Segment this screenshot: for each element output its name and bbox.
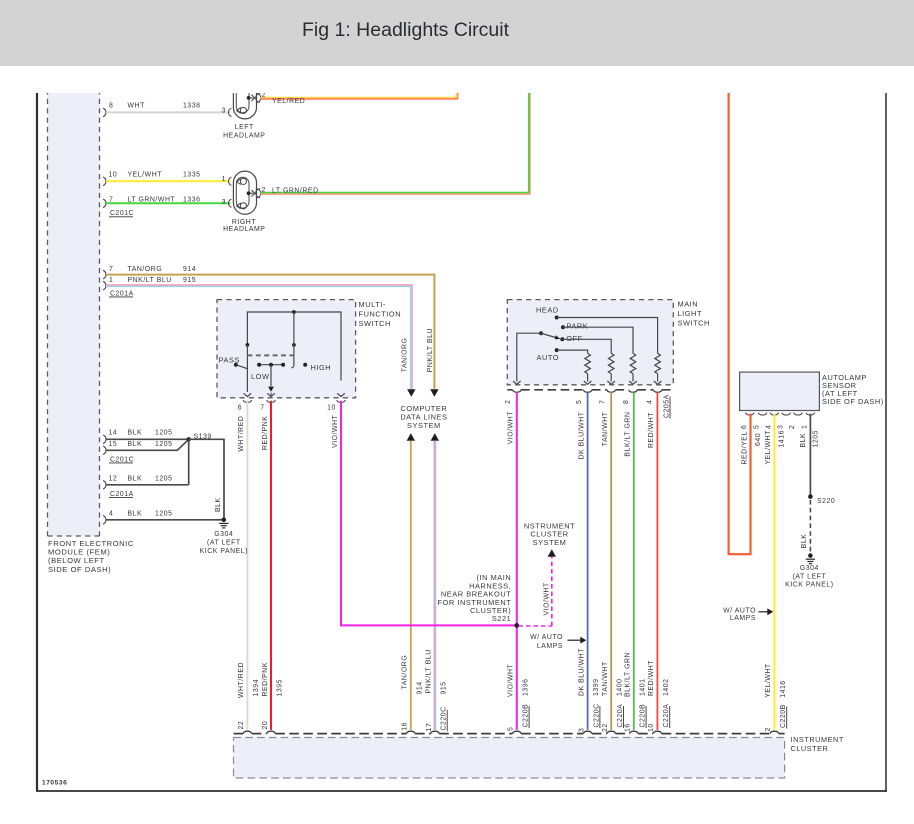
svg-text:1401: 1401: [639, 678, 646, 696]
svg-text:W/ AUTO: W/ AUTO: [723, 607, 756, 614]
svg-text:15: 15: [109, 441, 118, 448]
svg-text:22: 22: [602, 723, 609, 732]
svg-text:BLK: BLK: [215, 497, 222, 512]
svg-text:1335: 1335: [183, 172, 201, 179]
svg-text:2: 2: [262, 92, 266, 99]
svg-text:OFF: OFF: [566, 334, 582, 343]
svg-text:16: 16: [625, 723, 632, 732]
svg-text:DK BLU/WHT: DK BLU/WHT: [578, 648, 585, 696]
svg-text:AUTO: AUTO: [537, 353, 560, 362]
svg-text:TAN/WHT: TAN/WHT: [602, 661, 609, 696]
svg-text:1205: 1205: [813, 430, 820, 448]
svg-text:BLK: BLK: [800, 433, 807, 448]
svg-text:3: 3: [222, 199, 226, 206]
svg-text:1205: 1205: [155, 441, 173, 448]
svg-text:1416: 1416: [779, 430, 786, 448]
svg-text:G304: G304: [800, 565, 819, 572]
svg-text:VIO/WHT: VIO/WHT: [543, 582, 550, 616]
svg-text:SYSTEM: SYSTEM: [407, 421, 441, 430]
svg-text:C201A: C201A: [110, 491, 134, 498]
svg-text:MAIN: MAIN: [678, 300, 699, 309]
svg-text:YEL/RED: YEL/RED: [272, 98, 305, 105]
svg-text:C205A: C205A: [664, 394, 671, 418]
svg-text:SIDE OF DASH): SIDE OF DASH): [48, 565, 111, 574]
svg-text:FUNCTION: FUNCTION: [359, 310, 402, 319]
svg-text:C220B: C220B: [640, 704, 647, 728]
svg-text:BLK: BLK: [801, 534, 808, 549]
svg-text:8: 8: [109, 103, 113, 110]
svg-text:BLK: BLK: [128, 441, 143, 448]
svg-text:WHT/RED: WHT/RED: [238, 416, 245, 452]
svg-text:PNK/LT BLU: PNK/LT BLU: [128, 277, 172, 284]
svg-text:7: 7: [260, 405, 264, 412]
svg-text:5: 5: [508, 727, 515, 731]
svg-text:WHT: WHT: [128, 103, 146, 110]
svg-text:7: 7: [109, 266, 113, 273]
svg-text:RED/YEL: RED/YEL: [741, 431, 748, 464]
svg-text:C220A: C220A: [617, 704, 624, 728]
svg-text:RED/WHT: RED/WHT: [648, 412, 655, 448]
svg-text:BLK: BLK: [128, 430, 143, 437]
svg-text:VIO/WHT: VIO/WHT: [508, 663, 515, 697]
svg-text:1402: 1402: [663, 678, 670, 696]
svg-text:SIDE OF DASH): SIDE OF DASH): [822, 397, 884, 406]
svg-text:TAN/ORG: TAN/ORG: [128, 266, 163, 273]
svg-text:914: 914: [183, 266, 196, 273]
svg-text:LT GRN/RED: LT GRN/RED: [272, 187, 319, 194]
svg-text:BLK: BLK: [128, 476, 143, 483]
svg-text:C220C: C220C: [593, 703, 600, 727]
svg-text:3: 3: [777, 425, 784, 429]
svg-text:12: 12: [109, 476, 118, 483]
svg-text:C220B: C220B: [780, 704, 787, 728]
svg-text:170536: 170536: [42, 780, 67, 787]
svg-text:PARK: PARK: [567, 322, 589, 331]
svg-text:YEL/WHT: YEL/WHT: [765, 663, 772, 698]
svg-text:20: 20: [262, 721, 269, 730]
svg-text:1400: 1400: [617, 678, 624, 696]
svg-text:1416: 1416: [780, 680, 787, 698]
svg-text:TAN/ORG: TAN/ORG: [402, 655, 409, 690]
svg-text:SWITCH: SWITCH: [678, 319, 710, 328]
svg-text:BLK: BLK: [128, 510, 143, 517]
svg-text:C220A: C220A: [663, 704, 670, 728]
svg-text:MULTI-: MULTI-: [359, 300, 386, 309]
svg-text:1: 1: [802, 425, 809, 429]
svg-text:S220: S220: [817, 498, 835, 505]
svg-text:RED/PNK: RED/PNK: [262, 662, 269, 696]
svg-text:(AT LEFT: (AT LEFT: [207, 540, 241, 547]
svg-text:G304: G304: [214, 531, 233, 538]
svg-text:14: 14: [109, 430, 118, 437]
svg-text:C201C: C201C: [110, 456, 134, 463]
svg-text:10: 10: [648, 723, 655, 732]
svg-text:LEFT: LEFT: [235, 124, 254, 131]
svg-text:C220C: C220C: [441, 706, 448, 730]
svg-text:RED/PNK: RED/PNK: [262, 416, 269, 450]
svg-text:(AT LEFT: (AT LEFT: [793, 573, 827, 580]
svg-text:LIGHT: LIGHT: [678, 309, 703, 318]
svg-text:RIGHT: RIGHT: [232, 219, 256, 226]
svg-text:10: 10: [327, 405, 336, 412]
svg-text:5: 5: [754, 425, 761, 429]
svg-text:914: 914: [416, 681, 423, 694]
svg-text:915: 915: [183, 277, 196, 284]
svg-text:DK BLU/WHT: DK BLU/WHT: [578, 411, 585, 459]
svg-text:640: 640: [755, 433, 762, 446]
svg-text:22: 22: [238, 721, 245, 730]
svg-text:HEADLAMP: HEADLAMP: [223, 226, 265, 233]
svg-text:SYSTEM: SYSTEM: [533, 538, 567, 547]
svg-text:LAMPS: LAMPS: [730, 615, 756, 622]
svg-text:1338: 1338: [183, 103, 201, 110]
svg-text:4: 4: [766, 425, 773, 429]
svg-text:1399: 1399: [593, 678, 600, 696]
svg-text:2: 2: [765, 727, 772, 731]
svg-text:BLK/LT GRN: BLK/LT GRN: [625, 412, 632, 457]
svg-text:1205: 1205: [155, 476, 173, 483]
svg-text:VIO/WHT: VIO/WHT: [508, 411, 515, 445]
svg-text:C220B: C220B: [523, 704, 530, 728]
svg-text:8: 8: [623, 400, 630, 404]
svg-text:2: 2: [505, 400, 512, 404]
svg-text:915: 915: [440, 681, 447, 694]
svg-text:6: 6: [238, 405, 242, 412]
svg-text:1205: 1205: [155, 510, 173, 517]
svg-text:16: 16: [402, 722, 409, 731]
svg-text:4: 4: [646, 400, 653, 404]
svg-text:C201C: C201C: [110, 210, 134, 217]
svg-text:RED/WHT: RED/WHT: [648, 660, 655, 696]
svg-text:17: 17: [426, 723, 433, 732]
svg-text:4: 4: [109, 510, 113, 517]
svg-text:HEAD: HEAD: [536, 306, 559, 315]
svg-text:HIGH: HIGH: [311, 363, 332, 372]
svg-text:7: 7: [600, 400, 607, 404]
svg-text:YEL/WHT: YEL/WHT: [765, 430, 772, 465]
svg-text:1205: 1205: [155, 430, 173, 437]
svg-text:1: 1: [222, 176, 226, 183]
svg-text:LAMPS: LAMPS: [537, 643, 563, 650]
svg-text:PNK/LT BLU: PNK/LT BLU: [427, 328, 434, 372]
svg-text:10: 10: [109, 172, 118, 179]
svg-text:VIO/WHT: VIO/WHT: [332, 414, 339, 448]
svg-text:KICK PANEL): KICK PANEL): [200, 548, 248, 555]
svg-text:1395: 1395: [277, 679, 284, 697]
svg-text:INSTRUMENT: INSTRUMENT: [791, 735, 844, 744]
svg-text:1: 1: [109, 277, 113, 284]
svg-text:KICK PANEL): KICK PANEL): [785, 582, 833, 589]
svg-text:2: 2: [789, 425, 796, 429]
svg-text:5: 5: [576, 400, 583, 404]
svg-text:WHT/RED: WHT/RED: [238, 662, 245, 698]
svg-text:TAN/ORG: TAN/ORG: [402, 338, 409, 373]
svg-text:YEL/WHT: YEL/WHT: [128, 172, 163, 179]
svg-text:S221: S221: [492, 614, 511, 623]
svg-text:CLUSTER: CLUSTER: [791, 744, 829, 753]
svg-text:C201A: C201A: [110, 290, 134, 297]
svg-text:2: 2: [262, 187, 266, 194]
svg-text:BLK/LT GRN: BLK/LT GRN: [625, 652, 632, 697]
svg-text:PNK/LT BLU: PNK/LT BLU: [426, 649, 433, 693]
svg-text:1394: 1394: [253, 679, 260, 697]
svg-text:LOW: LOW: [251, 372, 270, 381]
svg-text:6: 6: [741, 425, 748, 429]
svg-text:HEADLAMP: HEADLAMP: [223, 132, 265, 139]
svg-text:1396: 1396: [522, 678, 529, 696]
svg-text:W/ AUTO: W/ AUTO: [530, 634, 563, 641]
svg-text:TAN/WHT: TAN/WHT: [602, 411, 609, 446]
svg-text:3: 3: [222, 108, 226, 115]
svg-text:SWITCH: SWITCH: [359, 319, 391, 328]
